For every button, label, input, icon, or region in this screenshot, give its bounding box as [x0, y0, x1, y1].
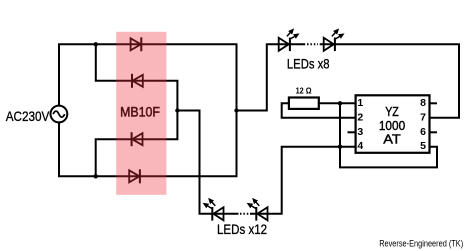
svg-text:7: 7	[420, 111, 426, 123]
svg-text:5: 5	[420, 140, 426, 152]
svg-text:4: 4	[357, 140, 363, 152]
svg-text:YZ: YZ	[385, 104, 399, 119]
svg-text:1: 1	[357, 97, 363, 109]
svg-text:AT: AT	[383, 132, 401, 147]
svg-text:AC230V: AC230V	[6, 108, 50, 124]
svg-text:6: 6	[420, 126, 426, 138]
svg-text:12 Ω: 12 Ω	[296, 86, 313, 95]
svg-text:2: 2	[357, 111, 363, 123]
svg-text:8: 8	[420, 97, 426, 109]
svg-text:3: 3	[357, 126, 363, 138]
svg-text:Reverse-Engineered (TK): Reverse-Engineered (TK)	[379, 238, 463, 248]
svg-text:LEDs x8: LEDs x8	[287, 55, 330, 71]
svg-text:LEDs x12: LEDs x12	[217, 221, 267, 237]
